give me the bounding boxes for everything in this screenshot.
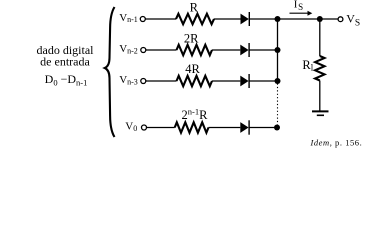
junction row2: [275, 47, 281, 53]
wire row1 right: [249, 18, 277, 20]
wire row3 right: [249, 80, 277, 82]
wire row3 left: [146, 80, 177, 82]
bus dotted segment: [277, 84, 279, 125]
svg-text:Idem, p. 156.: Idem, p. 156.: [310, 137, 363, 147]
diode D4: [240, 120, 249, 134]
bus solid segment: [277, 19, 279, 81]
wire row2 mid: [212, 49, 240, 51]
wire row2 right: [249, 49, 277, 51]
wire row3 mid: [212, 80, 240, 82]
wire RL bottom: [319, 81, 321, 112]
junction row1: [275, 16, 281, 22]
diode D1: [241, 12, 250, 26]
junction output node: [317, 16, 323, 22]
terminal Vn-1: [140, 17, 145, 22]
wire row4 mid: [209, 127, 241, 129]
junction row4: [274, 125, 280, 131]
wire row4 left: [147, 127, 175, 129]
brace: [105, 7, 115, 137]
wire row4 right: [249, 127, 277, 129]
wire RL top: [319, 19, 321, 56]
resistor Rl: [315, 56, 324, 81]
terminal V0: [142, 125, 147, 130]
terminal Vn-2: [141, 48, 146, 53]
resistor 2R: [177, 45, 213, 55]
svg-text:IS: IS: [294, 0, 303, 12]
current Is arrow: [290, 11, 313, 16]
wire row1 mid: [214, 18, 241, 20]
resistor 4R: [177, 76, 213, 86]
resistor R: [176, 14, 214, 24]
svg-text:de entrada: de entrada: [40, 55, 90, 69]
wire top output: [278, 18, 339, 20]
wire row1 left: [145, 18, 176, 20]
label: dado digital de entrada D0-Dn-1: [37, 43, 95, 88]
terminal Vs: [338, 17, 343, 22]
junction row3: [275, 78, 281, 84]
diode D3: [240, 74, 249, 88]
resistor 2^(n-1)R: [175, 122, 209, 132]
terminal Vn-3: [141, 79, 146, 84]
ground: [312, 111, 329, 115]
wire row2 left: [146, 49, 177, 51]
diode D2: [240, 43, 249, 57]
